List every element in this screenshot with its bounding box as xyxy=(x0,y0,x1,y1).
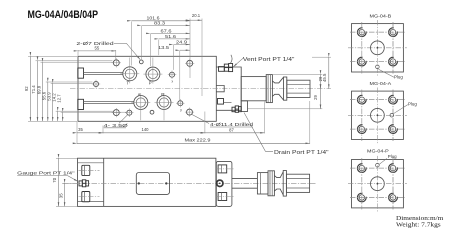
flange upper plug xyxy=(216,165,234,173)
pressure adjust cover (top view) xyxy=(216,67,241,110)
gauge port label xyxy=(17,171,78,182)
mounting hole bottom-left xyxy=(112,108,121,117)
centerline (front view axis) xyxy=(63,182,316,184)
svg-text:MG-04-B: MG-04-B xyxy=(370,14,392,19)
svg-text:Plug: Plug xyxy=(388,154,397,159)
flange view MG-04-P centerlines xyxy=(348,156,407,212)
nameplate xyxy=(136,173,169,195)
flange view MG-04-P plate xyxy=(352,160,404,208)
svg-text:55: 55 xyxy=(95,46,100,51)
dim 87 xyxy=(205,102,265,134)
dim 71.4 xyxy=(31,61,37,122)
flange view MG-04-B bolt hole 2 xyxy=(350,22,405,73)
flange view MG-04-A plate xyxy=(352,91,404,139)
tube (front view) xyxy=(257,173,268,194)
flange view MG-04-P bolt hole 2 xyxy=(350,158,405,209)
flange view MG-04-A bolt hole 4 xyxy=(350,90,405,141)
svg-text:20.1: 20.1 xyxy=(192,13,201,18)
locknut (front view) xyxy=(268,171,274,196)
svg-text:70: 70 xyxy=(52,177,57,182)
lower plug (front) xyxy=(79,192,100,202)
svg-text:12.7: 12.7 xyxy=(56,94,61,103)
svg-text:Plug: Plug xyxy=(408,102,417,107)
adjust screw neck (top view) xyxy=(272,77,283,100)
spring tube (top view) xyxy=(241,77,266,101)
left slot block lower xyxy=(78,99,84,109)
port T xyxy=(120,58,139,86)
svg-text:MG-04A/04B/04P: MG-04A/04B/04P xyxy=(28,9,99,21)
pin hole left xyxy=(92,80,100,88)
dim 24.9 xyxy=(173,39,190,44)
svg-text:35: 35 xyxy=(58,193,63,198)
flange view MG-04-B bolt hole 3 xyxy=(350,22,405,73)
flange view MG-04-A bolt hole 1 xyxy=(350,90,405,141)
flange view MG-04-A center port xyxy=(371,108,385,122)
svg-text:4-Ø11.4 Drilled: 4-Ø11.4 Drilled xyxy=(210,122,254,127)
svg-text:B: B xyxy=(161,92,164,97)
mounting hole top-left xyxy=(112,58,121,67)
dim 35 (front) xyxy=(58,183,77,206)
svg-text:83.3: 83.3 xyxy=(154,20,166,25)
mounting hole top-right xyxy=(185,59,194,68)
dim 35 xyxy=(77,122,103,144)
svg-text:24.9: 24.9 xyxy=(176,39,188,44)
svg-text:2-Ø7 Drilled: 2-Ø7 Drilled xyxy=(76,41,114,46)
svg-text:Max 222.9: Max 222.9 xyxy=(185,138,212,143)
pin hole Y xyxy=(176,99,184,107)
flange view MG-04-P plug circle xyxy=(376,163,380,167)
port B xyxy=(155,92,174,120)
pin hole 3.5 bottom xyxy=(125,109,133,117)
mounting hole bottom-right 11.4 drilled xyxy=(185,108,194,117)
drain port boss block xyxy=(241,101,247,112)
gauge port fitting xyxy=(79,180,89,187)
dim 14.2 xyxy=(51,93,57,122)
flange view MG-04-B centerlines xyxy=(348,20,407,76)
svg-text:P: P xyxy=(149,81,152,86)
flange view MG-04-B plate xyxy=(352,24,404,72)
flange view MG-04-A centerlines xyxy=(348,88,407,144)
pin hole X xyxy=(168,71,176,79)
front view divider xyxy=(78,158,104,206)
flange view MG-04-B bolt hole 4 xyxy=(350,22,405,73)
flange view MG-04-A plug label xyxy=(393,102,417,114)
svg-text:Weight: 7.7kgs: Weight: 7.7kgs xyxy=(396,221,441,228)
svg-text:MG-04-A: MG-04-A xyxy=(370,81,393,86)
dim 20 (right upper) xyxy=(273,74,323,88)
upper plug (front) xyxy=(79,165,100,175)
label 2-07 drilled xyxy=(76,41,140,60)
knob (front view) xyxy=(283,171,309,197)
svg-text:Drain Port PT 1/4": Drain Port PT 1/4" xyxy=(274,150,329,156)
extension lines left dims xyxy=(28,56,126,121)
svg-text:Vent Port PT 1/4": Vent Port PT 1/4" xyxy=(243,57,295,63)
vent port label leader xyxy=(233,58,243,67)
dim 13.5 xyxy=(158,45,190,50)
svg-text:MG-04-P: MG-04-P xyxy=(367,149,389,154)
flange view MG-04-P bolt hole 3 xyxy=(350,158,405,209)
svg-text:A: A xyxy=(138,92,141,97)
dim 70 xyxy=(52,158,77,206)
flange view MG-04-B plug circle xyxy=(376,65,380,69)
flange lower plug xyxy=(216,193,234,201)
dim 29 (right lower) xyxy=(248,89,322,109)
svg-text:92: 92 xyxy=(24,86,29,91)
vent port hex plug xyxy=(224,55,232,72)
flange view MG-04-B plug label xyxy=(379,69,404,79)
flange view MG-04-B bolt hole 1 xyxy=(350,22,405,73)
adjust knob (top view) xyxy=(284,77,311,100)
dim 12.7 xyxy=(56,94,62,122)
dim 53.9 xyxy=(46,83,52,121)
top view: valve body xyxy=(78,56,216,121)
dim 69.8 xyxy=(36,62,42,121)
front view: valve body xyxy=(78,158,216,206)
label 4-3.5 drilled xyxy=(104,114,129,128)
port A xyxy=(131,92,150,120)
svg-text:67.6: 67.6 xyxy=(161,28,173,33)
drain port hex plug xyxy=(232,106,241,112)
svg-text:Plug: Plug xyxy=(394,75,403,80)
boss circle (front view) xyxy=(217,180,223,186)
flange view MG-04-P bolt hole 1 xyxy=(350,158,405,209)
dim 101.6 xyxy=(131,16,190,21)
flange view MG-04-A bolt hole 2 xyxy=(350,90,405,141)
extension lines top dims xyxy=(131,19,202,101)
svg-text:4- 3.5Ø: 4- 3.5Ø xyxy=(104,123,129,128)
drain port label leader xyxy=(244,113,273,152)
svg-text:51.6: 51.6 xyxy=(165,34,177,39)
drain boss lower-left xyxy=(218,99,232,105)
left slot block upper xyxy=(78,68,84,78)
dim 20.1 xyxy=(190,13,202,20)
dim 92 xyxy=(24,56,30,121)
vent port boss xyxy=(219,67,225,72)
stem (front view) xyxy=(232,178,258,188)
dim 67.6 xyxy=(150,28,190,33)
svg-text:140: 140 xyxy=(142,127,150,132)
7 drilled hole bottom xyxy=(150,110,154,114)
svg-text:T: T xyxy=(127,81,130,86)
dim 55 xyxy=(78,46,116,60)
dim 51.6 xyxy=(159,34,190,39)
flange view MG-04-A plug circle xyxy=(390,113,394,117)
dim 140 xyxy=(103,112,205,134)
flange view MG-04-P plug label xyxy=(379,154,397,165)
cover notch xyxy=(216,86,224,92)
svg-text:13.5: 13.5 xyxy=(158,45,170,50)
svg-text:29: 29 xyxy=(313,95,318,100)
flange view MG-04-A bolt hole 3 xyxy=(350,90,405,141)
svg-text:35: 35 xyxy=(78,127,83,132)
rear flange (front view) xyxy=(216,161,232,206)
flange view MG-04-P center port xyxy=(371,177,385,191)
label 4-11.4 drilled xyxy=(192,114,254,127)
dim 45.5 xyxy=(312,57,331,88)
slot passage lines upper xyxy=(84,73,123,75)
dim 83.3 xyxy=(142,20,191,25)
flange view MG-04-B center port xyxy=(371,41,385,55)
svg-text:87: 87 xyxy=(229,127,234,132)
port P xyxy=(143,58,162,86)
svg-text:45.5: 45.5 xyxy=(322,73,327,82)
neck (front view) xyxy=(274,172,283,195)
slot passage lines lower xyxy=(84,101,134,103)
locknut (top view) xyxy=(266,75,272,103)
flange view MG-04-P bolt hole 4 xyxy=(350,158,405,209)
dim Max 222.9 xyxy=(77,101,310,144)
centerline (top view axis) xyxy=(70,88,331,90)
7 drilled hole top xyxy=(139,60,143,64)
dim 55.6 xyxy=(42,82,48,121)
